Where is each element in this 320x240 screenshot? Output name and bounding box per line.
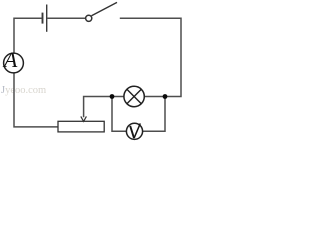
- svg-text:Jyeoo.com: Jyeoo.com: [1, 85, 46, 96]
- svg-text:A: A: [2, 47, 18, 72]
